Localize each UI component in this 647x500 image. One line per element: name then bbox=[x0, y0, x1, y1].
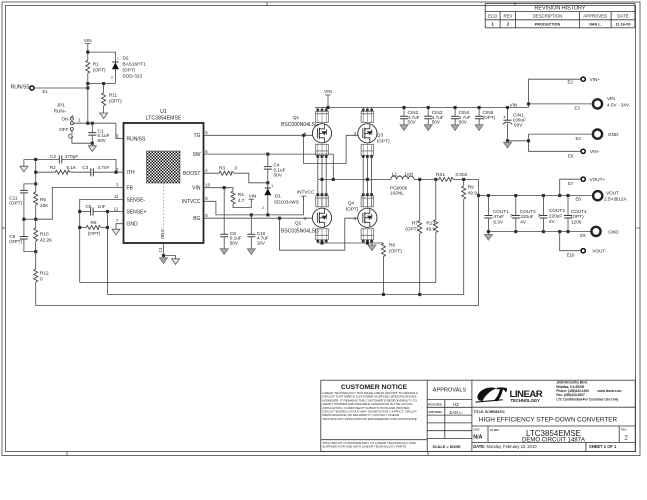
capacitor C1 bbox=[91, 123, 93, 132]
capacitor COUT4 bbox=[564, 196, 587, 232]
wire bottom loop bbox=[88, 83, 116, 85]
svg-text:16V: 16V bbox=[257, 241, 266, 246]
svg-text:GND: GND bbox=[608, 132, 619, 137]
svg-text:2: 2 bbox=[262, 206, 264, 210]
svg-text:1: 1 bbox=[271, 184, 273, 188]
svg-text:(OPT): (OPT) bbox=[109, 99, 122, 104]
node VIN flag top bbox=[84, 38, 92, 48]
svg-text:VIN: VIN bbox=[192, 186, 201, 192]
capacitor CIN5 bbox=[475, 106, 496, 130]
svg-text:(OPT): (OPT) bbox=[571, 214, 584, 219]
wire output rail bbox=[479, 195, 594, 197]
zone tick right bbox=[637, 227, 641, 229]
svg-text:50V: 50V bbox=[432, 120, 441, 125]
svg-text:FB: FB bbox=[127, 185, 134, 191]
svg-text:50V: 50V bbox=[230, 241, 239, 246]
zone tick bottom bbox=[67, 452, 428, 456]
resistor R6 bbox=[80, 227, 108, 229]
svg-text:BG: BG bbox=[193, 216, 200, 222]
size / icno / rev columns bbox=[488, 426, 619, 442]
resistor R2 bbox=[55, 170, 70, 174]
svg-text:E2: E2 bbox=[568, 80, 574, 85]
resistor R11 bbox=[103, 84, 105, 93]
svg-text:BSC035N04LSG: BSC035N04LSG bbox=[281, 229, 319, 235]
svg-text:TITLE: SCHEMATIC: TITLE: SCHEMATIC bbox=[474, 410, 506, 414]
svg-text:VIN: VIN bbox=[84, 38, 92, 43]
svg-text:10: 10 bbox=[205, 183, 210, 188]
ground power bbox=[371, 243, 373, 245]
svg-text:VOUT: VOUT bbox=[606, 190, 619, 195]
wire RS1 right bbox=[454, 178, 479, 180]
svg-text:JIAN L.: JIAN L. bbox=[449, 410, 463, 415]
customer notice divider bbox=[321, 439, 427, 441]
svg-text:L1: L1 bbox=[392, 172, 398, 177]
svg-text:PRODUCTION: PRODUCTION bbox=[535, 23, 561, 27]
ground below COUT1 bbox=[487, 232, 489, 235]
resistor R4 bbox=[231, 191, 235, 204]
svg-text:2: 2 bbox=[507, 22, 510, 27]
wire BOOST + resistor R3 bbox=[204, 173, 268, 183]
svg-text:1: 1 bbox=[491, 22, 494, 27]
wire GND pin7 bbox=[116, 224, 124, 230]
svg-text:SW: SW bbox=[192, 152, 200, 158]
wire VIN to R1/D2 bbox=[87, 48, 89, 61]
terminal E8 bbox=[593, 191, 602, 200]
svg-text:E3: E3 bbox=[575, 105, 581, 110]
svg-text:SHEET 1 OF 1: SHEET 1 OF 1 bbox=[589, 444, 617, 449]
wire VIN bus bbox=[315, 107, 529, 109]
svg-text:(OPT): (OPT) bbox=[377, 138, 390, 143]
svg-text:12: 12 bbox=[114, 206, 119, 211]
svg-text:(OPT): (OPT) bbox=[93, 67, 106, 72]
svg-text:R9: R9 bbox=[468, 185, 474, 190]
wire TG row bbox=[204, 134, 313, 136]
wire left rail bbox=[35, 159, 37, 192]
svg-text:50V: 50V bbox=[274, 172, 283, 177]
svg-text:4V: 4V bbox=[549, 219, 556, 224]
svg-text:49.9: 49.9 bbox=[468, 191, 478, 196]
svg-text:N/A: N/A bbox=[473, 434, 482, 440]
diode D2 bbox=[111, 56, 119, 83]
svg-text:11-16-09: 11-16-09 bbox=[616, 23, 631, 27]
wire L1 to RS1 bbox=[414, 178, 439, 180]
approvals rows bbox=[427, 400, 472, 439]
svg-text:1: 1 bbox=[117, 56, 119, 60]
U1 right pin names bbox=[182, 133, 201, 222]
svg-text:RS1: RS1 bbox=[436, 172, 446, 177]
capacitor C10 bbox=[250, 215, 252, 234]
svg-text:VOUT-: VOUT- bbox=[592, 249, 607, 254]
svg-text:(OPT): (OPT) bbox=[405, 227, 418, 232]
svg-text:PCB DES.: PCB DES. bbox=[428, 402, 442, 406]
svg-text:1206: 1206 bbox=[571, 220, 582, 225]
svg-text:6.3V: 6.3V bbox=[493, 220, 504, 225]
U1 pin numbers bbox=[114, 130, 211, 253]
capacitor C11 rail bbox=[24, 184, 36, 191]
svg-text:E9: E9 bbox=[580, 233, 586, 238]
svg-text:R1: R1 bbox=[93, 61, 99, 66]
svg-text:GND: GND bbox=[608, 229, 619, 234]
terminal E2 bbox=[581, 77, 585, 81]
svg-text:50V: 50V bbox=[459, 120, 468, 125]
svg-text:INTVCC: INTVCC bbox=[297, 190, 315, 195]
svg-text:1: 1 bbox=[116, 182, 119, 187]
svg-text:U1: U1 bbox=[160, 109, 167, 115]
svg-text:BOOST: BOOST bbox=[183, 171, 201, 177]
svg-text:SCALE = NONE: SCALE = NONE bbox=[433, 445, 462, 449]
capacitor C3 bbox=[91, 168, 94, 176]
svg-text:RUN–: RUN– bbox=[54, 109, 67, 114]
svg-text:HIGH EFFICIENCY STEP-DOWN CONV: HIGH EFFICIENCY STEP-DOWN CONVERTER bbox=[479, 417, 618, 424]
svg-text:4.7nF: 4.7nF bbox=[97, 165, 109, 170]
svg-text:JP1: JP1 bbox=[57, 102, 65, 107]
svg-text:(OPT): (OPT) bbox=[123, 68, 136, 73]
ground below R11 bbox=[103, 106, 105, 113]
inductor L1 bbox=[391, 176, 414, 179]
svg-text:TECHNOLOGY APPLICATIONS ENGINE: TECHNOLOGY APPLICATIONS ENGINEERING FOR … bbox=[322, 417, 418, 421]
wire bus up to E2/E3 bbox=[529, 79, 582, 107]
svg-text:C2: C2 bbox=[50, 154, 56, 159]
capacitor CIN3 bbox=[424, 106, 444, 130]
svg-text:49.9: 49.9 bbox=[426, 227, 436, 232]
transistor Q3 bbox=[358, 109, 377, 157]
svg-text:VIN: VIN bbox=[324, 89, 332, 94]
svg-text:220uF: 220uF bbox=[549, 214, 562, 219]
terminal E3 bbox=[593, 99, 602, 108]
svg-text:TECHNOLOGY: TECHNOLOGY bbox=[511, 398, 541, 403]
svg-text:8: 8 bbox=[205, 213, 208, 218]
wire JP1 pin2 to node bbox=[73, 122, 116, 124]
diode D1 bbox=[267, 183, 269, 188]
wire main vertical bbox=[87, 84, 89, 124]
svg-text:2: 2 bbox=[78, 118, 81, 123]
svg-text:5: 5 bbox=[205, 130, 208, 135]
svg-text:APPROVED: APPROVED bbox=[583, 14, 607, 19]
svg-text:E8: E8 bbox=[576, 197, 582, 202]
capacitor C9 bbox=[20, 237, 28, 240]
svg-text:R8: R8 bbox=[389, 243, 395, 248]
node VIN flag mid bbox=[249, 193, 257, 203]
wire FB bbox=[36, 187, 124, 219]
svg-text:VIN: VIN bbox=[607, 96, 615, 101]
svg-text:HZ: HZ bbox=[453, 402, 459, 407]
wire Q2/Q4 source to gnd bus bbox=[318, 242, 372, 243]
resistor R12 bbox=[35, 252, 37, 269]
wire SENSE+ bbox=[108, 212, 124, 295]
svg-text:5.1K: 5.1K bbox=[67, 165, 78, 170]
U1 left pin names bbox=[127, 136, 147, 227]
svg-text:50V: 50V bbox=[98, 138, 107, 143]
svg-text:SOD-323: SOD-323 bbox=[123, 74, 143, 79]
svg-text:0: 0 bbox=[40, 277, 43, 282]
zone tick top bbox=[267, 2, 515, 6]
svg-text:VIN: VIN bbox=[510, 102, 518, 107]
svg-text:R2: R2 bbox=[50, 165, 56, 170]
transistor Q4 bbox=[358, 194, 377, 242]
svg-text:(OPT): (OPT) bbox=[9, 239, 22, 244]
wire R1 bottom bbox=[87, 73, 89, 83]
U1 pin 13 ground bbox=[164, 243, 176, 259]
capacitor C8 bbox=[223, 188, 225, 235]
svg-text:(OPT): (OPT) bbox=[88, 231, 101, 236]
resistor R10 bbox=[35, 219, 37, 228]
svg-text:4V: 4V bbox=[520, 220, 527, 225]
svg-text:APPROVALS: APPROVALS bbox=[433, 387, 467, 393]
terminal E6 bbox=[581, 149, 585, 153]
wire SENSE- bbox=[80, 199, 124, 282]
svg-text:www.linear.com: www.linear.com bbox=[597, 389, 622, 393]
svg-text:GND: GND bbox=[160, 229, 165, 240]
svg-text:9: 9 bbox=[205, 196, 208, 201]
svg-text:3: 3 bbox=[116, 133, 119, 138]
svg-text:REV: REV bbox=[503, 14, 512, 19]
resistor R5 bbox=[34, 192, 38, 205]
svg-text:LTC3854EMSE: LTC3854EMSE bbox=[146, 116, 182, 122]
svg-text:E1: E1 bbox=[43, 89, 49, 94]
svg-text:E7: E7 bbox=[568, 181, 574, 186]
wire bottom rail bbox=[488, 231, 591, 233]
terminal E7 bbox=[581, 177, 585, 181]
transistor Q2 bbox=[312, 194, 331, 242]
svg-text:SENSE+: SENSE+ bbox=[127, 209, 147, 215]
svg-text:Q3: Q3 bbox=[377, 132, 384, 137]
svg-text:50V: 50V bbox=[408, 120, 417, 125]
svg-text:R3: R3 bbox=[219, 166, 225, 171]
svg-text:1uH: 1uH bbox=[404, 172, 413, 177]
svg-text:R12: R12 bbox=[40, 271, 49, 276]
svg-text:DEMO CIRCUIT 1487A: DEMO CIRCUIT 1487A bbox=[522, 438, 585, 444]
wire TG jog to Q3 gate bbox=[304, 135, 358, 163]
svg-text:C6: C6 bbox=[86, 204, 92, 209]
svg-text:DATE: DATE bbox=[617, 14, 628, 19]
svg-text:VIN-: VIN- bbox=[590, 149, 600, 154]
svg-text:13: 13 bbox=[158, 247, 163, 252]
svg-text:(OPT): (OPT) bbox=[9, 201, 22, 206]
svg-text:4.7: 4.7 bbox=[238, 198, 245, 203]
svg-text:E10: E10 bbox=[567, 253, 575, 258]
svg-text:LTC3854EMSE: LTC3854EMSE bbox=[526, 429, 581, 438]
svg-text:(OPT): (OPT) bbox=[389, 249, 402, 254]
resistor R9 bbox=[463, 179, 465, 186]
sheet column bbox=[585, 442, 587, 451]
svg-text:2.5V@12A: 2.5V@12A bbox=[604, 197, 628, 202]
svg-text:IC NO.: IC NO. bbox=[490, 428, 499, 432]
capacitor CIN2 bbox=[400, 106, 420, 130]
svg-text:220uF: 220uF bbox=[520, 214, 533, 219]
resistor R1 bbox=[86, 60, 90, 73]
svg-text:DATE: Monday, February 22, 201: DATE: Monday, February 22, 2010 bbox=[473, 444, 537, 449]
wire E10 jog bbox=[560, 232, 581, 251]
svg-text:11: 11 bbox=[114, 194, 119, 199]
wire C to VOUT sense bbox=[36, 179, 479, 305]
svg-text:GND: GND bbox=[127, 222, 139, 228]
wire top loop to D2 bbox=[88, 52, 116, 62]
LT logo bbox=[475, 387, 543, 403]
svg-text:COUT2: COUT2 bbox=[520, 209, 536, 214]
wire B sense+ long bbox=[108, 200, 464, 295]
svg-text:50V: 50V bbox=[514, 122, 523, 127]
svg-text:R7: R7 bbox=[412, 221, 418, 226]
svg-text:RUN/SS: RUN/SS bbox=[11, 84, 31, 90]
wire A sense- long bbox=[80, 233, 436, 283]
wire CIN1 gnd row to E4/E6 bbox=[508, 134, 593, 151]
wire SW row bbox=[204, 154, 334, 179]
wire FET source columns down to switch row bbox=[318, 158, 326, 208]
terminal E9 bbox=[591, 227, 600, 236]
resistor R8 bbox=[383, 242, 385, 245]
outer bbox=[321, 380, 635, 451]
svg-text:DESCRIPTION: DESCRIPTION bbox=[533, 14, 562, 19]
customer notice box right edge / approvals bbox=[427, 380, 472, 451]
node VIN flag powerstage bbox=[324, 89, 332, 99]
wire E1 to node bbox=[34, 87, 88, 89]
resistor R13 bbox=[435, 179, 437, 219]
svg-text:COUT1: COUT1 bbox=[493, 209, 509, 214]
svg-text:COUT3: COUT3 bbox=[549, 208, 565, 213]
op IC body U1 bbox=[124, 123, 204, 243]
capacitor COUT2 polarized bbox=[510, 196, 536, 232]
svg-text:4.5V - 34V: 4.5V - 34V bbox=[607, 103, 630, 108]
wire JP1 pin3 OFF to gnd bbox=[72, 131, 92, 144]
capacitor C2 bbox=[59, 155, 62, 163]
capacitor C6 bbox=[80, 211, 108, 213]
svg-text:Q2: Q2 bbox=[295, 220, 302, 225]
svg-text:0: 0 bbox=[235, 166, 238, 171]
svg-text:RUN/SS: RUN/SS bbox=[127, 136, 147, 142]
svg-text:BAS16HT1: BAS16HT1 bbox=[123, 62, 147, 67]
resistor R7 bbox=[419, 179, 421, 220]
capacitor COUT3 polarized bbox=[538, 196, 565, 232]
svg-text:D1: D1 bbox=[275, 193, 281, 198]
svg-text:(OPT): (OPT) bbox=[346, 206, 359, 211]
terminal E10 bbox=[581, 249, 585, 253]
wire to RUN/SS pin bbox=[116, 123, 124, 138]
node INTVCC flag bbox=[297, 190, 315, 201]
svg-text:CUSTOMER NOTICE: CUSTOMER NOTICE bbox=[341, 384, 408, 391]
terminal E4 bbox=[593, 130, 602, 139]
zone tick left bbox=[2, 227, 6, 229]
svg-text:INTVCC: INTVCC bbox=[182, 199, 201, 205]
svg-text:SD103AWS: SD103AWS bbox=[274, 200, 299, 205]
svg-text:TG: TG bbox=[194, 133, 201, 139]
svg-text:470pF: 470pF bbox=[65, 154, 78, 159]
wire switch node row bbox=[318, 178, 391, 180]
svg-text:R13: R13 bbox=[426, 221, 435, 226]
capacitor CIN1 electrolytic bbox=[503, 106, 526, 148]
svg-text:R10: R10 bbox=[40, 232, 49, 237]
right section rows bbox=[472, 407, 635, 442]
svg-text:COUT4: COUT4 bbox=[571, 209, 587, 214]
resistor RS1 sense bbox=[439, 177, 454, 181]
svg-text:ON: ON bbox=[61, 116, 68, 121]
svg-text:R4: R4 bbox=[238, 192, 244, 197]
svg-text:SIZE: SIZE bbox=[473, 428, 479, 432]
svg-text:BSC090N04LSG: BSC090N04LSG bbox=[281, 122, 319, 128]
svg-text:Q4: Q4 bbox=[348, 200, 355, 205]
svg-text:APP ENG.: APP ENG. bbox=[428, 410, 442, 414]
svg-text:VIN+: VIN+ bbox=[590, 77, 601, 82]
wire Q1/Q3 drain columns to bus handled by fet symbol; connect boxes bbox=[318, 108, 372, 112]
svg-text:R6: R6 bbox=[91, 220, 97, 225]
svg-text:2: 2 bbox=[624, 436, 628, 442]
svg-text:4: 4 bbox=[205, 168, 208, 173]
capacitor COUT1 bbox=[484, 196, 509, 232]
svg-text:0.002: 0.002 bbox=[456, 172, 468, 177]
svg-text:ITH: ITH bbox=[127, 170, 135, 176]
svg-text:R5: R5 bbox=[40, 197, 46, 202]
svg-text:(OPT): (OPT) bbox=[483, 115, 496, 120]
svg-text:102NL: 102NL bbox=[390, 191, 404, 196]
svg-text:OFF: OFF bbox=[59, 127, 69, 132]
svg-text:6: 6 bbox=[205, 149, 208, 154]
capacitor CIN4 bbox=[451, 106, 471, 130]
svg-text:ECO: ECO bbox=[488, 14, 498, 19]
address bbox=[556, 381, 621, 402]
svg-text:R11: R11 bbox=[109, 93, 118, 98]
svg-text:2: 2 bbox=[111, 76, 113, 80]
svg-text:REVISION HISTORY: REVISION HISTORY bbox=[534, 6, 585, 12]
svg-text:1nF: 1nF bbox=[98, 204, 106, 209]
capacitor C4 bbox=[267, 154, 269, 167]
wire BG jog to Q4 gate bbox=[280, 218, 358, 250]
svg-text:42.2K: 42.2K bbox=[40, 238, 53, 243]
svg-text:D2: D2 bbox=[123, 56, 129, 61]
ground below C1 bbox=[91, 142, 93, 144]
wire ITH row bbox=[36, 171, 124, 173]
svg-text:20K: 20K bbox=[40, 203, 49, 208]
svg-text:VOUT+: VOUT+ bbox=[590, 177, 606, 182]
svg-text:C3: C3 bbox=[82, 165, 88, 170]
svg-text:SUPPLIED FOR USE WITH LINEAR T: SUPPLIED FOR USE WITH LINEAR TECHNOLOGY … bbox=[322, 445, 407, 449]
svg-text:VIN: VIN bbox=[249, 193, 257, 198]
svg-text:47uF: 47uF bbox=[493, 214, 504, 219]
svg-text:REV.: REV. bbox=[621, 428, 628, 432]
svg-text:JIAN L.: JIAN L. bbox=[589, 23, 602, 27]
svg-text:7: 7 bbox=[116, 219, 119, 224]
wire C2 row bbox=[24, 159, 116, 172]
svg-text:E6: E6 bbox=[568, 153, 574, 158]
svg-text:LTC Confidential-For Customer: LTC Confidential-For Customer Use Only bbox=[556, 397, 618, 401]
wire E7 jog bbox=[560, 179, 581, 195]
ground left of C2 bbox=[23, 159, 25, 166]
svg-text:E4: E4 bbox=[576, 136, 582, 141]
svg-text:Q1: Q1 bbox=[293, 115, 300, 120]
svg-text:SENSE-: SENSE- bbox=[127, 197, 146, 203]
